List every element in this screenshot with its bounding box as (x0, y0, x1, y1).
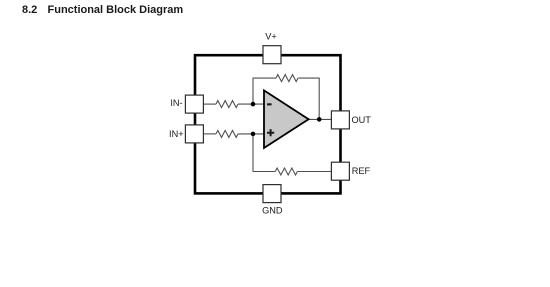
op-amp plus input sign (267, 129, 274, 136)
op-amp U1 (264, 90, 309, 148)
pin pad GND (263, 185, 281, 203)
wire R1 to minus node (238, 103, 265, 105)
svg-text:GND: GND (262, 206, 283, 216)
resistor R3 (feedback) (276, 75, 298, 82)
wire plus node down and across to R4 (253, 134, 275, 172)
pin pad IN- (185, 95, 203, 113)
chip boundary box (195, 55, 341, 193)
pin pad IN+ (185, 125, 203, 143)
svg-text:IN+: IN+ (169, 129, 184, 139)
junction dot minus node (251, 102, 256, 107)
svg-text:Functional Block Diagram: Functional Block Diagram (48, 4, 184, 16)
wire IN- pad to R1 (204, 103, 216, 105)
pin pad OUT (331, 111, 349, 129)
wire op-amp output to OUT pad (308, 118, 331, 120)
resistor R2 (IN+ input) (216, 130, 238, 137)
junction dot output node (317, 117, 322, 122)
junction dot plus node (251, 132, 256, 137)
wire feedback: minus node up and across to R3 (253, 78, 276, 104)
svg-text:8.2: 8.2 (22, 4, 37, 16)
op-amp minus input sign (267, 103, 272, 105)
wire R4 to REF pad (297, 171, 331, 173)
wire R2 to plus node (238, 133, 265, 135)
svg-text:OUT: OUT (352, 115, 372, 125)
resistor R1 (IN- input) (216, 101, 238, 108)
svg-text:REF: REF (352, 166, 371, 176)
wire R3 down to output node (298, 78, 319, 119)
svg-text:IN-: IN- (170, 98, 182, 108)
pin pad REF (331, 162, 349, 180)
svg-text:V+: V+ (265, 31, 277, 41)
resistor R4 (REF) (275, 168, 297, 175)
pin pad V+ (263, 46, 281, 64)
wire IN+ pad to R2 (204, 133, 216, 135)
